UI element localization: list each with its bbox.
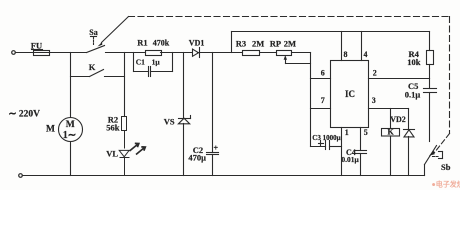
- node: left AC terminal top: [12, 51, 16, 55]
- wire: [261, 52, 277, 54]
- dashed mechanical linkage: [102, 17, 129, 43]
- wire: [292, 52, 311, 54]
- svg-text:Sa: Sa: [89, 28, 97, 37]
- svg-text:∼ 220V: ∼ 220V: [9, 109, 41, 119]
- svg-text:2M: 2M: [284, 39, 296, 49]
- svg-text:8: 8: [344, 50, 348, 59]
- relay coil K: [390, 109, 392, 129]
- svg-text:470k: 470k: [153, 39, 170, 48]
- wire: [161, 52, 192, 54]
- fuse FU: [34, 51, 50, 56]
- svg-text:7: 7: [321, 96, 325, 105]
- svg-text:0.01μ: 0.01μ: [341, 155, 359, 164]
- svg-text:R1: R1: [137, 38, 147, 48]
- svg-text:2: 2: [373, 68, 377, 77]
- wire: pin 8: [341, 32, 343, 61]
- wire: branch before Sa down to motor: [70, 53, 72, 118]
- svg-text:M: M: [46, 124, 55, 134]
- resistor R3: [243, 51, 260, 56]
- resistor R1: [146, 51, 162, 56]
- wire: pin 5: [360, 128, 362, 151]
- svg-text:M: M: [66, 120, 75, 130]
- capacitor C1 loop: [133, 53, 135, 72]
- svg-text:VL: VL: [106, 148, 118, 158]
- svg-text:1μ: 1μ: [152, 58, 161, 67]
- svg-text:2M: 2M: [252, 39, 264, 49]
- wire: bottom rail: [23, 175, 425, 177]
- svg-text:470μ: 470μ: [188, 152, 206, 162]
- linkage arrow at Sb: [429, 151, 435, 156]
- capacitor C2 branch: [212, 53, 214, 153]
- svg-text:10k: 10k: [407, 57, 421, 67]
- svg-text:R3: R3: [236, 39, 246, 49]
- relay contact K: [71, 76, 90, 78]
- svg-text:VD1: VD1: [189, 38, 205, 47]
- svg-text:4: 4: [364, 50, 368, 59]
- wire: [198, 52, 243, 54]
- wire: branch after Sa down (K / R2 / VL): [124, 53, 126, 117]
- wire: node to pins 6/7: [310, 53, 312, 147]
- wire: Vcc rail: [232, 31, 430, 33]
- wire: pin 2: [369, 78, 430, 80]
- switch Sa actuator: [91, 36, 97, 38]
- svg-text:IC: IC: [345, 89, 355, 99]
- resistor R4: [429, 32, 431, 51]
- capacitor C3: [311, 146, 326, 148]
- wire: [70, 142, 72, 176]
- svg-text:C3 1000μ: C3 1000μ: [312, 134, 340, 142]
- LED VL: [119, 143, 145, 175]
- wire: [106, 52, 146, 54]
- svg-text:●电子发烧友: ●电子发烧友: [432, 180, 460, 189]
- wire: pin 1: [341, 128, 343, 176]
- svg-text:VD2: VD2: [390, 115, 406, 124]
- svg-text:K: K: [388, 127, 395, 136]
- diode VD2: [408, 109, 410, 130]
- linkage arrow at Sa: [98, 42, 103, 47]
- svg-text:6: 6: [321, 68, 325, 77]
- wire: pin 4: [361, 32, 363, 61]
- svg-text:Sb: Sb: [441, 162, 451, 172]
- svg-text:C1: C1: [136, 58, 145, 67]
- wire: [50, 52, 87, 54]
- IC (555 timer) box: [331, 61, 369, 128]
- svg-text:RP: RP: [270, 39, 281, 49]
- wire: [16, 52, 34, 54]
- svg-text:0.1μ: 0.1μ: [405, 90, 421, 100]
- push button bracket Sb: [442, 152, 444, 159]
- zener diode VS branch: [183, 53, 185, 119]
- switch Sb: [424, 165, 426, 176]
- svg-text:5: 5: [364, 128, 368, 137]
- potentiometer RP: [277, 51, 292, 56]
- svg-text:+: +: [214, 144, 219, 153]
- node: left AC terminal bottom: [19, 174, 23, 178]
- svg-text:1: 1: [345, 128, 349, 137]
- svg-text:K: K: [89, 62, 96, 72]
- svg-text:VS: VS: [164, 116, 175, 126]
- resistor R2: [122, 117, 127, 149]
- svg-text:56k: 56k: [106, 123, 120, 133]
- capacitor C4: [355, 150, 367, 152]
- diode VD1: [193, 49, 199, 56]
- switch Sa blade: [87, 46, 105, 53]
- svg-text:1∼: 1∼: [63, 130, 76, 141]
- motor M: [59, 118, 83, 142]
- wire: pin 3: [369, 108, 409, 110]
- svg-text:FU: FU: [31, 40, 42, 50]
- svg-text:3: 3: [372, 96, 376, 105]
- capacitor C5: [429, 79, 431, 89]
- wire: Vcc riser: [231, 32, 233, 53]
